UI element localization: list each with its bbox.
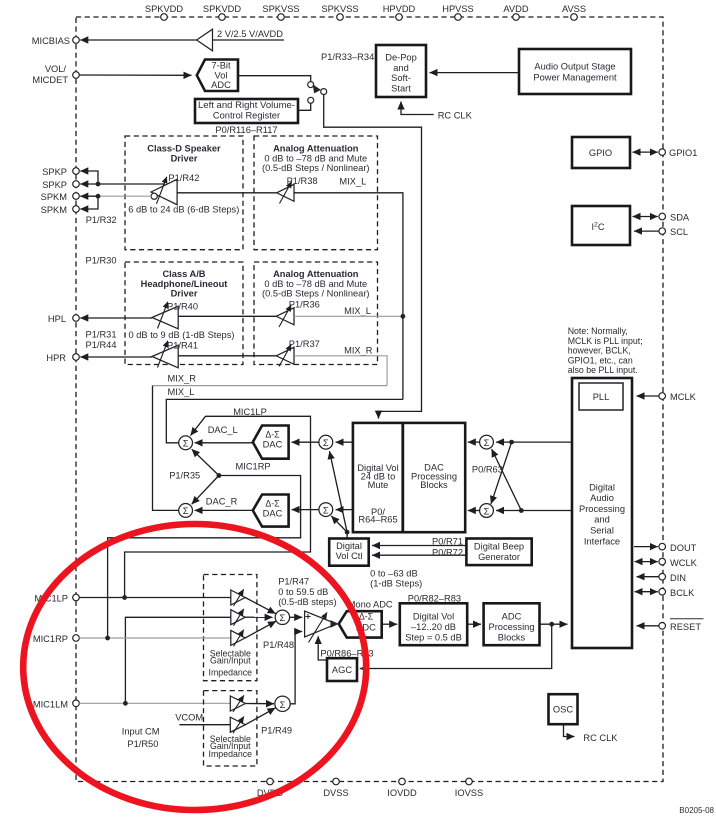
wire ADC to digital vol — [382, 623, 398, 625]
switch contact (bottom) — [308, 97, 314, 103]
analog attenuator P1/R37 — [276, 339, 320, 367]
wire MIX_R to P1/R37 (gray) — [294, 356, 387, 386]
svg-text:B0205-08: B0205-08 — [679, 806, 714, 815]
svg-text:Driver: Driver — [171, 153, 198, 163]
pin HPVDD (top 5) — [383, 4, 416, 20]
wire DAC_R to mixer — [195, 509, 253, 511]
dashed box Selectable Gain/Input Impedance (lower) — [204, 691, 257, 766]
svg-text:SCL: SCL — [670, 227, 688, 237]
svg-text:Σ: Σ — [183, 439, 189, 449]
svg-text:Digital Vol: Digital Vol — [413, 612, 454, 622]
svg-text:Σ: Σ — [323, 505, 329, 515]
Digital Audio Processing and Serial Interface block — [572, 378, 632, 648]
svg-text:Control Register: Control Register — [213, 111, 280, 121]
pin WCLK — [659, 558, 698, 568]
pin SPKP 2 — [42, 180, 79, 190]
junction SPKP — [96, 182, 101, 187]
pin SPKM 2 — [41, 205, 80, 215]
svg-text:HPVDD: HPVDD — [383, 4, 416, 14]
svg-text:Soft-: Soft- — [391, 73, 411, 83]
svg-text:P1/R40: P1/R40 — [167, 301, 198, 311]
mic buffer T2 (MIC1LM) — [231, 609, 245, 626]
svg-text:IOVSS: IOVSS — [455, 788, 483, 798]
pin SPKM 1 — [41, 192, 80, 202]
wire T3 to mic mixer — [245, 621, 276, 638]
wire serial mixer R to DAC processing — [468, 510, 480, 512]
svg-text:HPR: HPR — [46, 353, 66, 363]
wire SPKM branch to pins — [80, 196, 98, 209]
summing node DAC_R mixer — [179, 504, 193, 518]
svg-text:SPKVDD: SPKVDD — [203, 4, 242, 14]
svg-text:Headphone/Lineout: Headphone/Lineout — [141, 279, 228, 289]
wire MIC1RP row (gray) — [79, 637, 231, 639]
dashed box Class-D Speaker Driver — [125, 136, 243, 250]
wire AOSPM to De-Pop — [430, 72, 520, 74]
wire mic mixer to ADC PGA — [290, 616, 303, 618]
dashed box Selectable Gain/Input Impedance (upper) — [204, 575, 257, 681]
wire vol ctl to mixer L — [330, 451, 348, 532]
wire MIC1RP net — [108, 476, 301, 639]
wire Digital Vol block to mixer L — [336, 441, 353, 443]
svg-text:MIC1LM: MIC1LM — [33, 699, 68, 709]
wire ADC processing to digital audio — [540, 623, 568, 625]
wire digital audio to serial mixer L — [496, 441, 572, 443]
svg-text:Serial: Serial — [590, 525, 614, 535]
wire digital audio to serial mixer R — [496, 510, 572, 512]
pin DVSS (bottom) — [323, 778, 348, 798]
wire vol ctl to mixer R — [331, 516, 347, 532]
svg-text:P1/R38: P1/R38 — [287, 176, 318, 186]
svg-text:Class-D Speaker: Class-D Speaker — [147, 143, 221, 153]
pin DIN — [659, 573, 686, 583]
svg-text:0 dB to –78 dB and Mute: 0 dB to –78 dB and Mute — [264, 153, 367, 163]
summing node mic mixer 2 — [275, 696, 290, 711]
pin VOL/MICDET — [32, 64, 79, 85]
wire I2C SDA (bidirectional) — [633, 216, 658, 218]
svg-text:Σ: Σ — [484, 438, 490, 448]
svg-text:Σ: Σ — [280, 700, 286, 710]
wire mic mixer 2 to ADC PGA — [290, 632, 302, 704]
svg-text:MIC1LP: MIC1LP — [233, 407, 267, 417]
switch wiper contact — [321, 89, 327, 95]
svg-text:SPKP: SPKP — [42, 180, 67, 190]
svg-text:and: and — [594, 515, 610, 525]
svg-text:Note: Normally,: Note: Normally, — [568, 326, 628, 336]
svg-text:Blocks: Blocks — [420, 480, 448, 490]
pin HPR — [46, 353, 79, 363]
svg-text:Σ: Σ — [484, 506, 490, 516]
speaker driver amp P1/R42 — [151, 173, 199, 205]
svg-text:SPKM: SPKM — [41, 205, 67, 215]
wire Digital Vol Ctl riser — [346, 532, 348, 538]
wire MIC1LM row (gray) — [79, 702, 230, 704]
headphone amp HPR P1/R41 — [152, 340, 198, 367]
pin HPL — [48, 314, 79, 324]
wire beep gen to vol ctl P0/R71 — [372, 537, 466, 547]
dashed box Analog Attenuation (headphone) — [254, 262, 378, 365]
svg-text:Processing: Processing — [489, 622, 535, 632]
svg-text:Generator: Generator — [478, 552, 520, 562]
analog attenuator P1/R38 — [277, 176, 318, 204]
wire ADC output to AGC — [360, 624, 552, 668]
svg-text:R64–R65: R64–R65 — [358, 515, 397, 525]
wire MIX_L branch to P1/R36 (gray) — [294, 315, 403, 317]
svg-text:SDA: SDA — [670, 213, 690, 223]
junction Digital Vol Ctl — [345, 530, 350, 535]
wire digital vol R mixer to DAC — [292, 509, 319, 511]
pin MCLK — [659, 392, 697, 402]
wire BCLK (bidirectional) — [635, 591, 658, 593]
svg-text:ADC: ADC — [211, 80, 231, 90]
svg-text:BCLK: BCLK — [670, 588, 695, 598]
delta-sigma DAC left — [253, 426, 289, 459]
junction MIC1LM — [123, 701, 128, 706]
wire MCLK to PLL — [637, 395, 659, 397]
svg-text:Σ: Σ — [183, 506, 189, 516]
svg-text:P1/R30: P1/R30 — [86, 256, 117, 266]
GPIO block — [572, 137, 630, 168]
junction serial R — [519, 508, 524, 513]
PLL block — [579, 383, 623, 410]
svg-text:Class A/B: Class A/B — [162, 269, 205, 279]
pin AVSS (top 8) — [562, 4, 586, 20]
wire T2 to mic mixer — [245, 616, 272, 618]
svg-text:also be PLL input.: also be PLL input. — [568, 365, 638, 375]
wire MICBIAS output to pin — [80, 39, 196, 41]
wire cross L to R mixer — [491, 442, 512, 504]
svg-text:however, BCLK,: however, BCLK, — [568, 346, 631, 356]
svg-text:GPIO: GPIO — [589, 148, 612, 158]
svg-text:(0.5-dB Steps / Nonlinear): (0.5-dB Steps / Nonlinear) — [262, 289, 369, 299]
wire HPL amp to pin — [80, 317, 152, 319]
svg-text:PLL: PLL — [593, 392, 610, 402]
svg-text:Mute: Mute — [368, 480, 389, 490]
7-bit Vol ADC block — [197, 60, 238, 92]
svg-text:MIX_R: MIX_R — [168, 374, 197, 384]
wire MIC1LP row — [79, 597, 231, 599]
svg-text:0 dB to –78 dB and Mute: 0 dB to –78 dB and Mute — [264, 279, 367, 289]
svg-text:P1/R32: P1/R32 — [86, 215, 117, 225]
wire WCLK (bidirectional) — [635, 561, 658, 563]
svg-text:SPKM: SPKM — [41, 192, 67, 202]
wire sidetone to DAC_R mixer — [192, 476, 219, 505]
wire GPIO to pin (bidirectional) — [633, 151, 658, 153]
svg-text:SPKVSS: SPKVSS — [262, 4, 299, 14]
wire speaker amp input from attenuator — [177, 192, 277, 194]
svg-text:RC CLK: RC CLK — [583, 733, 618, 743]
svg-text:VOL/: VOL/ — [45, 64, 67, 74]
wire MIC1LP net to DAC_L mixer — [125, 416, 311, 597]
svg-text:P0/R71: P0/R71 — [432, 537, 463, 547]
svg-text:MIX_L: MIX_L — [344, 306, 371, 316]
svg-text:P0/R116–R117: P0/R116–R117 — [215, 125, 277, 135]
svg-text:Audio: Audio — [590, 493, 614, 503]
delta-sigma mono ADC — [339, 611, 382, 637]
pin SPKVSS (top 4) — [321, 4, 358, 20]
svg-text:P1/R42: P1/R42 — [168, 173, 199, 183]
ADC Processing Blocks block — [484, 603, 540, 645]
wire T1 to mic mixer — [245, 598, 275, 614]
svg-text:AGC: AGC — [332, 665, 352, 675]
wire digital vol to ADC processing — [467, 623, 481, 625]
svg-text:P1/R41: P1/R41 — [167, 340, 198, 350]
svg-text:Processing: Processing — [579, 504, 625, 514]
svg-text:and: and — [393, 63, 409, 73]
svg-text:(1-dB Steps): (1-dB Steps) — [370, 579, 422, 589]
svg-text:DAC: DAC — [263, 509, 283, 519]
svg-text:–12..20 dB: –12..20 dB — [411, 622, 456, 632]
svg-text:7-Bit: 7-Bit — [211, 61, 231, 71]
svg-text:Blocks: Blocks — [498, 632, 526, 642]
Digital Beep Generator block — [466, 539, 531, 566]
MICBIAS buffer amp (2 V/2.5 V/AVDD) — [197, 29, 284, 51]
svg-text:AVSS: AVSS — [562, 4, 586, 14]
wire attenuator P1/R36 to HPL amp — [178, 315, 276, 317]
wire RESET — [637, 625, 659, 627]
summing node mic mixer 1 — [275, 610, 289, 624]
wire cross R to L mixer — [492, 449, 522, 511]
svg-text:Impedance: Impedance — [209, 668, 253, 678]
svg-text:Left and Right Volume-: Left and Right Volume- — [198, 100, 295, 110]
svg-text:OSC: OSC — [553, 705, 573, 715]
pin IOVSS (bottom) — [455, 778, 483, 798]
svg-text:Analog Attenuation: Analog Attenuation — [273, 143, 359, 153]
svg-text:Σ: Σ — [280, 613, 286, 623]
Digital Vol Ctl block — [329, 539, 369, 566]
wire AGC to PGA — [318, 636, 327, 660]
svg-text:DAC_R: DAC_R — [206, 497, 238, 507]
junction MIX_L branch — [401, 314, 406, 319]
pin MICBIAS — [32, 36, 80, 46]
wire SPKM output row (gray) — [98, 195, 151, 197]
Digital Vol 24 dB to Mute / DAC Processing Blocks block — [353, 423, 465, 532]
svg-text:Δ-Σ: Δ-Σ — [359, 612, 374, 622]
svg-text:Interface: Interface — [584, 536, 620, 546]
wire MIX_L to speaker attenuator — [294, 193, 403, 400]
svg-text:MIC1RP: MIC1RP — [33, 634, 68, 644]
inverting output bubble on SPKM line — [151, 193, 157, 199]
wire register to switch bottom contact — [298, 103, 311, 110]
note text MCLK PLL — [568, 326, 643, 375]
Digital Vol -12..20 dB block — [400, 603, 467, 645]
wire digital vol L mixer to DAC — [292, 441, 319, 443]
svg-text:Driver: Driver — [171, 289, 198, 299]
analog attenuator P1/R36 — [276, 299, 320, 327]
svg-text:P1/R36: P1/R36 — [289, 299, 320, 309]
svg-text:MICBIAS: MICBIAS — [32, 36, 70, 46]
wire HPR amp to pin — [80, 356, 152, 358]
svg-text:SPKVSS: SPKVSS — [321, 4, 358, 14]
svg-text:MIC1RP: MIC1RP — [236, 462, 271, 472]
svg-text:MCLK is PLL input;: MCLK is PLL input; — [568, 336, 643, 346]
svg-text:P1/R35: P1/R35 — [169, 470, 200, 480]
pin RESET (active low, overline) — [659, 619, 704, 632]
AGC block — [327, 658, 357, 681]
svg-text:MICDET: MICDET — [32, 75, 68, 85]
wire sidetone to DAC_L mixer — [192, 449, 219, 475]
svg-text:Vol Ctl: Vol Ctl — [336, 551, 363, 561]
wire RC CLK into De-Pop bottom — [401, 102, 473, 121]
wire MIX_R bus — [153, 385, 388, 387]
wire DIN — [637, 576, 659, 578]
svg-text:De-Pop: De-Pop — [385, 53, 417, 63]
wire PGA to delta-sigma ADC — [331, 620, 339, 628]
svg-text:Analog Attenuation: Analog Attenuation — [273, 269, 359, 279]
pin SPKVDD (top 2) — [203, 4, 242, 20]
wire attenuator P1/R37 to HPR amp — [178, 355, 276, 357]
pin SCL — [659, 227, 688, 237]
wire switch wiper to Digital Vol block top — [324, 95, 422, 419]
wire SPKP output row — [98, 183, 165, 185]
svg-text:MIX_L: MIX_L — [168, 387, 195, 397]
wire DAC_L to mixer — [195, 442, 253, 444]
svg-text:IOVDD: IOVDD — [387, 788, 417, 798]
De-Pop and Soft-Start block — [376, 45, 426, 97]
svg-text:SPKVDD: SPKVDD — [145, 4, 184, 14]
pin IOVDD (bottom) — [387, 778, 417, 798]
wire OSC RC CLK output — [564, 724, 619, 743]
ADC PGA amp — [305, 611, 337, 643]
junction MIC1LP — [122, 595, 127, 600]
red highlight ellipse — [23, 524, 366, 810]
svg-text:HPL: HPL — [48, 314, 66, 324]
wire VOL/MICDET pin to 7-bit Vol ADC — [79, 74, 191, 76]
junction P1/R35 — [217, 473, 222, 478]
pin DVDD (bottom) — [257, 778, 284, 798]
svg-text:DAC_L: DAC_L — [208, 425, 238, 435]
wire VCOM row — [179, 724, 230, 726]
svg-text:Vol: Vol — [215, 70, 228, 80]
pin GPIO1 — [659, 148, 698, 158]
svg-text:P1/R31: P1/R31 — [86, 330, 117, 340]
wire Vol ADC output to switch top contact — [238, 76, 311, 82]
junction MIC1RP — [105, 636, 110, 641]
mic buffer T1 (MIC1LP) — [231, 589, 245, 606]
svg-text:0 to 59.5 dB: 0 to 59.5 dB — [278, 587, 328, 597]
svg-text:P0/R72: P0/R72 — [432, 547, 463, 557]
dashed box Class A/B Headphone/Lineout Driver — [125, 262, 243, 365]
wire MIX_L bus — [166, 399, 403, 442]
pin MIC1LM — [33, 699, 79, 709]
svg-text:Audio Output Stage: Audio Output Stage — [534, 61, 615, 71]
svg-text:MIX_R: MIX_R — [344, 345, 373, 355]
svg-text:Impedance: Impedance — [209, 749, 253, 759]
Audio Output Stage Power Management block — [519, 49, 631, 94]
svg-text:P1/R44: P1/R44 — [86, 340, 117, 350]
svg-text:0 to –63 dB: 0 to –63 dB — [370, 569, 418, 579]
switch selector arrow — [313, 84, 321, 93]
pin SPKVSS (top 3) — [262, 4, 299, 20]
mic buffer T3 (MIC1RP) — [231, 630, 245, 647]
pin DOUT — [659, 543, 697, 553]
svg-text:Σ: Σ — [323, 438, 329, 448]
svg-text:P0/R63: P0/R63 — [472, 465, 503, 475]
svg-text:DVSS: DVSS — [323, 788, 348, 798]
svg-text:DOUT: DOUT — [670, 543, 697, 553]
svg-text:P1/R47: P1/R47 — [278, 577, 309, 587]
svg-text:P1/R33–R34: P1/R33–R34 — [321, 52, 374, 62]
summing node digital vol R — [319, 503, 333, 517]
svg-text:(0.5-dB Steps / Nonlinear): (0.5-dB Steps / Nonlinear) — [262, 163, 369, 173]
svg-text:6 dB to 24 dB (6-dB Steps): 6 dB to 24 dB (6-dB Steps) — [128, 205, 239, 215]
svg-text:Step = 0.5 dB: Step = 0.5 dB — [405, 632, 462, 642]
svg-text:SPKP: SPKP — [42, 167, 67, 177]
pin SDA — [659, 213, 690, 223]
svg-text:WCLK: WCLK — [670, 558, 698, 568]
wire T5 to mic mixer 2 — [245, 708, 275, 725]
mic buffer T4 (MIC1LM) — [230, 695, 245, 712]
svg-text:DIN: DIN — [670, 573, 686, 583]
svg-text:Δ-Σ: Δ-Σ — [265, 429, 280, 439]
svg-text:(0.5-dB steps): (0.5-dB steps) — [278, 597, 336, 607]
pin HPVSS (top 6) — [442, 4, 474, 20]
pin AVDD (top 7) — [503, 4, 528, 20]
wire serial mixer L to DAC processing — [468, 441, 480, 443]
svg-text:AVDD: AVDD — [503, 4, 528, 14]
delta-sigma DAC right — [253, 495, 289, 527]
I2C block — [572, 206, 630, 245]
switch contact (top) — [308, 82, 314, 88]
svg-text:I2C: I2C — [591, 222, 604, 233]
svg-text:Power Management: Power Management — [533, 72, 617, 82]
pin MIC1LP — [34, 594, 79, 604]
junction SPKM — [96, 194, 101, 199]
summing node serial L — [480, 435, 494, 449]
wire beep gen to vol ctl P0/R72 — [372, 547, 466, 557]
wire T4 to mic mixer 2 — [245, 703, 274, 705]
svg-text:Digital Beep: Digital Beep — [474, 541, 524, 551]
summing node serial R — [480, 504, 494, 518]
svg-text:Gain/Input: Gain/Input — [210, 656, 251, 666]
mic buffer T5 (VCOM) — [230, 717, 245, 734]
svg-text:DAC: DAC — [263, 440, 283, 450]
svg-text:Digital: Digital — [589, 483, 615, 493]
chip boundary dashed border — [76, 17, 663, 782]
summing node DAC_L mixer — [179, 436, 193, 450]
wire SPKP branch to pins — [80, 171, 98, 184]
svg-text:P1/R48: P1/R48 — [263, 640, 294, 650]
headphone amp HPL P1/R40 — [152, 301, 198, 328]
svg-text:GPIO1, etc., can: GPIO1, etc., can — [568, 355, 633, 365]
svg-text:RC CLK: RC CLK — [438, 111, 473, 121]
svg-text:Δ-Σ: Δ-Σ — [265, 498, 280, 508]
svg-text:MIX_L: MIX_L — [339, 176, 366, 186]
junction serial L — [509, 440, 514, 445]
svg-text:Digital: Digital — [336, 541, 362, 551]
pin SPKP 1 — [42, 167, 79, 177]
wire I2C SCL — [634, 230, 659, 232]
svg-text:Start: Start — [391, 83, 411, 93]
svg-text:Input CM: Input CM — [122, 727, 160, 737]
svg-text:MCLK: MCLK — [670, 392, 697, 402]
svg-text:VCOM: VCOM — [175, 713, 203, 723]
wire MIC1LM branch row — [125, 617, 230, 703]
summing node digital vol L — [319, 435, 333, 449]
pin BCLK — [659, 588, 695, 598]
svg-text:RESET: RESET — [670, 622, 701, 632]
svg-text:P1/R49: P1/R49 — [261, 726, 292, 736]
pin SPKVDD (top 1) — [145, 4, 184, 20]
svg-text:2 V/2.5 V/AVDD: 2 V/2.5 V/AVDD — [217, 29, 283, 39]
Left and Right Volume-Control Register block — [195, 99, 298, 123]
svg-text:P1/R50: P1/R50 — [127, 739, 158, 749]
OSC block — [549, 694, 578, 724]
svg-text:0 dB to 9 dB (1-dB Steps): 0 dB to 9 dB (1-dB Steps) — [129, 330, 235, 340]
wire DOUT — [634, 546, 658, 548]
dashed box Analog Attenuation (speaker) — [254, 136, 378, 250]
svg-text:HPVSS: HPVSS — [442, 4, 474, 14]
svg-text:P1/R37: P1/R37 — [289, 339, 320, 349]
